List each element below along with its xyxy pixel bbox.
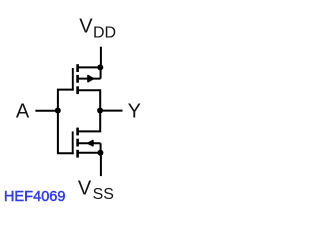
wire NMOS bulk tie vertical <box>100 143 102 153</box>
svg-text:SS: SS <box>93 186 114 203</box>
transistor Q1 PMOS channel ticks <box>76 64 79 94</box>
wire input A lead <box>35 110 57 112</box>
wire PMOS drain to output <box>77 90 100 110</box>
transistor Q1 PMOS bulk arrow <box>88 76 93 82</box>
wire PMOS bulk tie vertical <box>100 67 102 78</box>
svg-text:V: V <box>78 178 92 200</box>
wire VSS stub <box>100 153 102 176</box>
wire NMOS bulk lead <box>77 142 101 144</box>
wire input gate net <box>58 90 74 154</box>
svg-text:DD: DD <box>93 25 116 42</box>
transistor Q2 NMOS bulk arrow <box>88 141 93 146</box>
node output Y junction <box>97 108 103 114</box>
transistor Q2 NMOS gate bar <box>72 131 74 154</box>
node NMOS source junction <box>97 150 103 156</box>
svg-text:A: A <box>16 100 30 122</box>
wire output Y lead <box>100 110 122 112</box>
node input junction <box>55 108 61 114</box>
transistor Q2 NMOS channel ticks <box>76 128 79 158</box>
wire PMOS bulk lead <box>77 78 101 80</box>
wire NMOS drain to output <box>77 111 100 132</box>
node PMOS source junction <box>97 64 103 70</box>
wire NMOS source lead <box>77 152 100 154</box>
svg-text:V: V <box>79 15 93 37</box>
wire VDD stub <box>100 47 102 68</box>
transistor Q1 PMOS gate bar <box>72 68 74 91</box>
svg-text:Y: Y <box>128 100 141 122</box>
wire PMOS source lead <box>77 66 100 68</box>
svg-text:HEF4069: HEF4069 <box>4 189 66 205</box>
